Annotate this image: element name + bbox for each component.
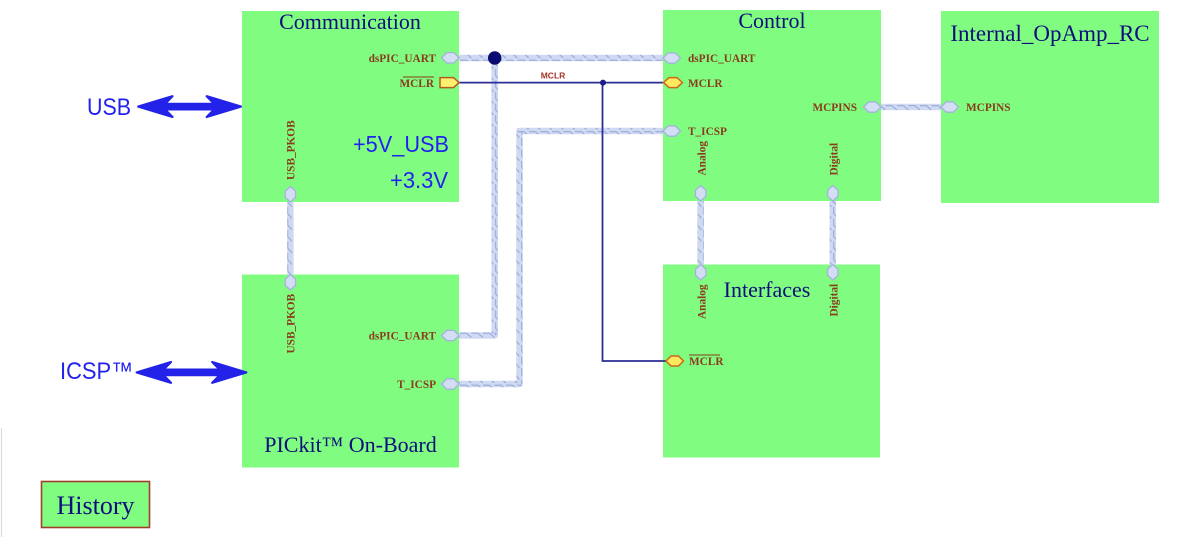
pin T_ICSP (PICkit, right edge)	[442, 379, 460, 389]
svg-text:Communication: Communication	[279, 9, 421, 34]
svg-text:ICSP™: ICSP™	[60, 358, 133, 385]
junction on dsPIC_UART bus	[488, 51, 501, 64]
svg-text:USB_PKOB: USB_PKOB	[286, 293, 298, 353]
svg-text:dsPIC_UART: dsPIC_UART	[688, 53, 756, 65]
pin USB_PKOB (PICkit, top edge)	[285, 275, 295, 291]
pin Analog (Control, bottom edge)	[696, 186, 706, 202]
wire net MCLR: branch down to Interfaces	[603, 83, 667, 361]
svg-text:MCPINS: MCPINS	[966, 102, 1011, 114]
svg-text:dsPIC_UART: dsPIC_UART	[369, 331, 437, 343]
svg-text:MCLR: MCLR	[541, 71, 566, 81]
svg-text:Digital: Digital	[829, 284, 841, 317]
svg-text:MCPINS: MCPINS	[812, 102, 857, 114]
pin MCPINS (Internal_OpAmp_RC, left edge)	[941, 102, 959, 112]
junction on MCLR net	[600, 80, 606, 86]
pin dsPIC_UART (PICkit, right edge)	[442, 330, 460, 340]
svg-text:History: History	[57, 491, 135, 520]
arrow ICSP double-headed	[137, 362, 247, 383]
wire bus net Analog: Control to Interfaces	[697, 201, 704, 265]
block History	[42, 482, 150, 528]
wire bus net dsPIC_UART: Communication to Control	[459, 55, 663, 62]
pin Digital (Interfaces, top edge)	[828, 265, 838, 281]
arrow USB double-headed	[138, 96, 241, 117]
pin Analog (Interfaces, top edge)	[696, 265, 706, 281]
pin dsPIC_UART (Control, left edge)	[663, 53, 681, 63]
block Communication	[242, 11, 459, 202]
svg-text:Analog: Analog	[697, 141, 709, 176]
block PICkit On-Board	[242, 275, 459, 468]
block Internal_OpAmp_RC	[941, 11, 1159, 203]
wire bus net MCPINS: Control to Internal_OpAmp_RC	[881, 104, 941, 111]
pin Digital (Control, bottom edge)	[828, 186, 838, 202]
wire net MCLR: Communication to Control	[459, 82, 663, 84]
wire bus net dsPIC_UART: branch down to PICkit	[459, 58, 495, 336]
svg-text:USB_PKOB: USB_PKOB	[286, 120, 298, 180]
svg-text:Analog: Analog	[697, 284, 709, 319]
svg-text:Digital: Digital	[829, 143, 841, 176]
svg-text:+3.3V: +3.3V	[390, 167, 449, 193]
block Control	[663, 10, 881, 201]
pin MCPINS (Control, right edge)	[864, 102, 882, 112]
svg-text:MCLR: MCLR	[688, 78, 723, 90]
svg-text:MCLR: MCLR	[399, 78, 434, 90]
pin MCLR (Communication, right edge, yellow flag)	[440, 78, 459, 88]
pin MCLR (Interfaces, left edge, yellow)	[666, 356, 684, 366]
pin dsPIC_UART (Communication, right edge)	[442, 53, 460, 63]
pin T_ICSP (Control, left edge)	[663, 126, 681, 136]
svg-text:dsPIC_UART: dsPIC_UART	[369, 53, 437, 65]
pin MCLR (Control, left edge, yellow)	[664, 78, 683, 88]
svg-text:T_ICSP: T_ICSP	[688, 126, 727, 138]
svg-text:Interfaces: Interfaces	[724, 277, 811, 302]
pin USB_PKOB (Communication, bottom edge)	[285, 187, 295, 203]
svg-text:MCLR: MCLR	[689, 356, 724, 368]
svg-text:PICkit™ On-Board: PICkit™ On-Board	[264, 432, 437, 457]
block Interfaces	[663, 265, 880, 458]
svg-text:Internal_OpAmp_RC: Internal_OpAmp_RC	[950, 21, 1149, 46]
svg-text:Control: Control	[738, 8, 805, 33]
svg-text:T_ICSP: T_ICSP	[397, 379, 436, 391]
svg-text:USB: USB	[87, 94, 131, 121]
wire bus net Digital: Control to Interfaces	[830, 201, 837, 265]
window edge artifact line	[1, 428, 3, 537]
wire bus net T_ICSP: Control to PICkit	[459, 131, 663, 384]
svg-text:+5V_USB: +5V_USB	[353, 131, 449, 157]
wire bus net USB_PKOB: Communication to PICkit	[287, 202, 294, 275]
